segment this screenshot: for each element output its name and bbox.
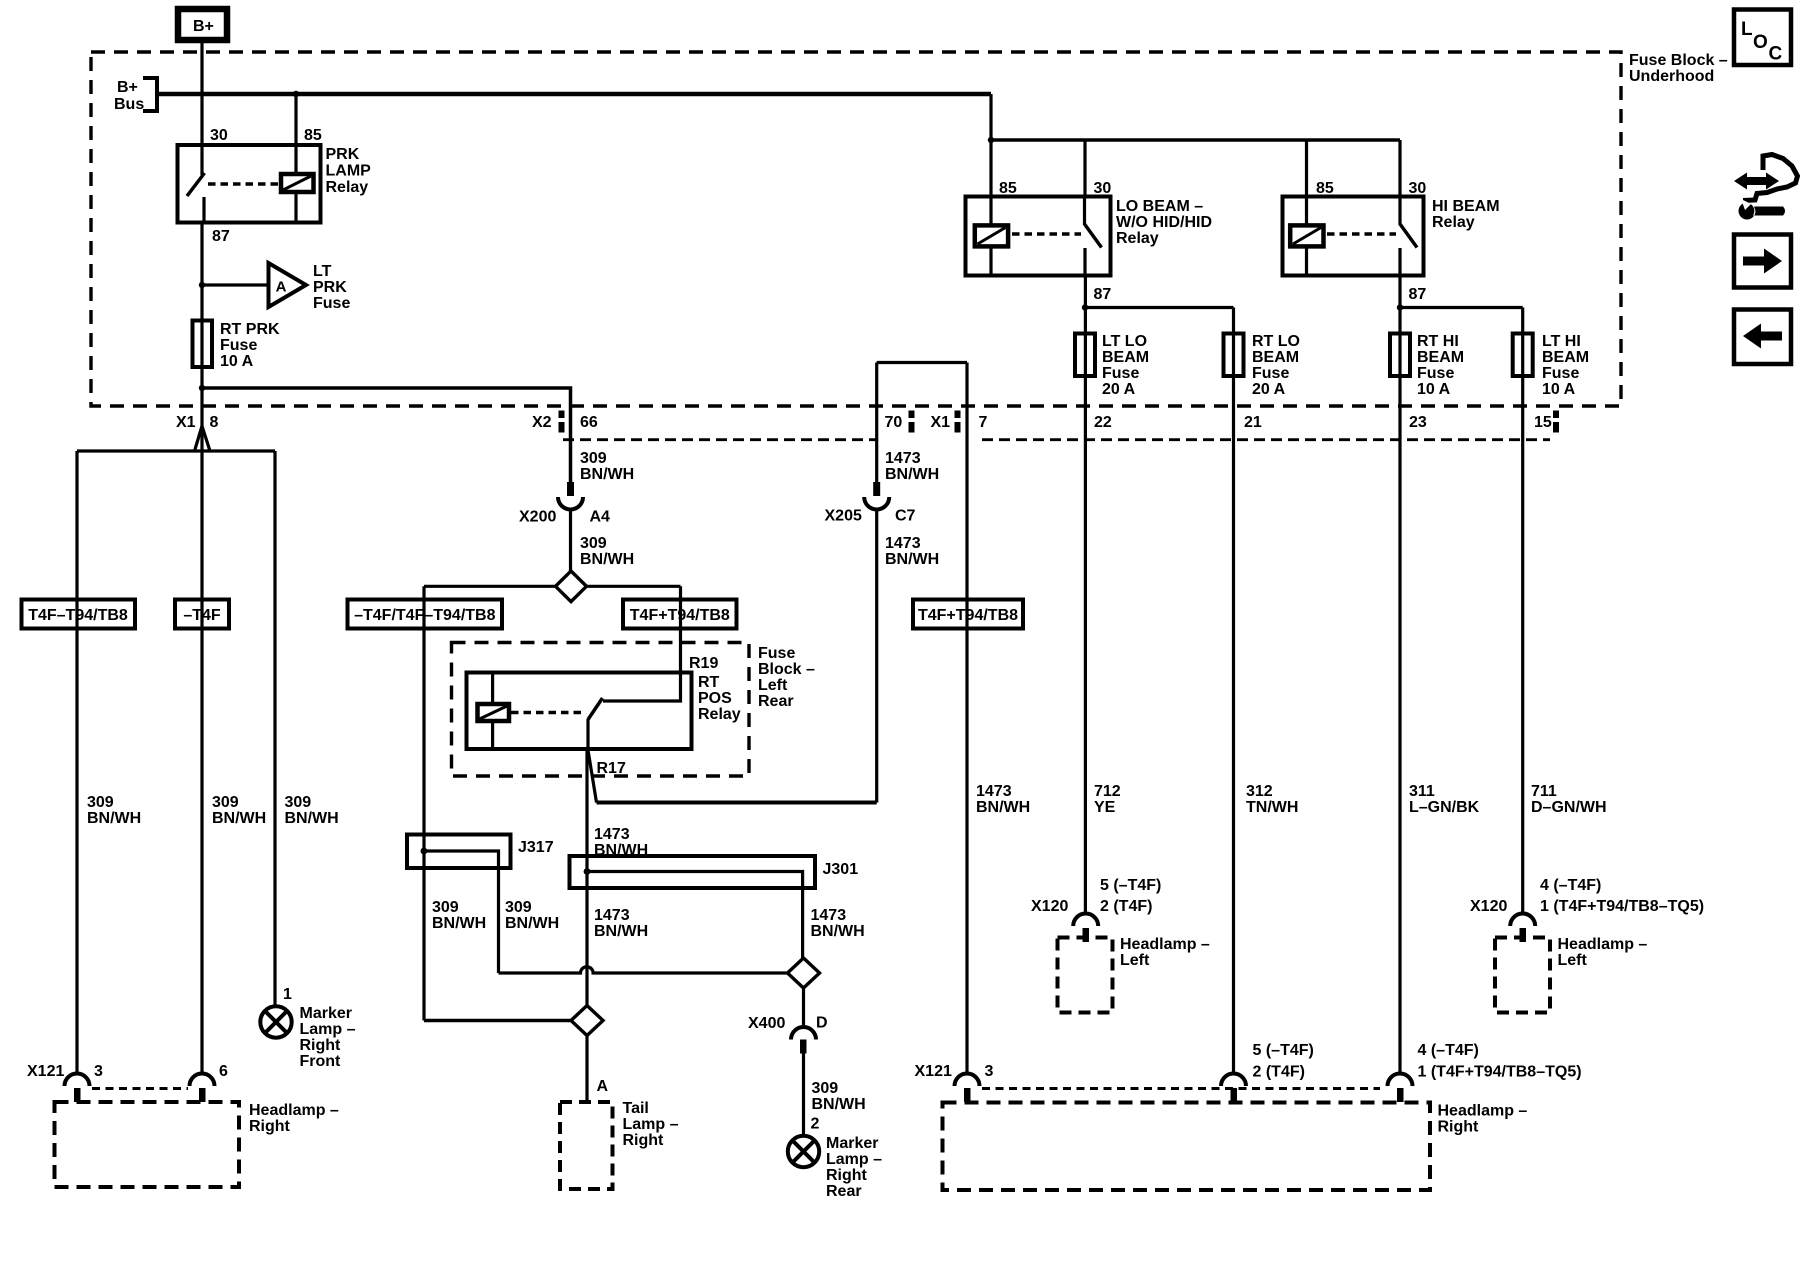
wire R17 slant to X205 feed [588, 750, 597, 803]
harness box –T4F/T4F–T94/TB8 [348, 600, 503, 629]
wire label 309 BN/WH (X400) [812, 1080, 866, 1113]
svg-text:BN/WH: BN/WH [594, 923, 648, 940]
relay LO BEAM pin87 stub [1083, 248, 1086, 276]
wire left branch down to X121-3 [75, 451, 78, 1073]
fuse RT HI BEAM label [1417, 333, 1464, 398]
splice pack J301 [570, 856, 816, 958]
connector X120 left (arc and pin) [1073, 914, 1098, 943]
wire label 1473 BN/WH (above X205) [885, 450, 939, 483]
relay R19 RT POS box [467, 673, 692, 750]
fuse RT HI BEAM 10A [1390, 334, 1410, 377]
pin labels 5/2 (X120 left) [1100, 877, 1161, 915]
svg-text:Tail: Tail [623, 1100, 649, 1117]
svg-text:R17: R17 [597, 760, 626, 777]
svg-text:Lamp –: Lamp – [826, 1151, 882, 1168]
wire label 309 BN/WH (below X200) [580, 535, 634, 568]
splice diamond (tail lamp) [571, 1006, 603, 1036]
svg-text:1473: 1473 [976, 783, 1012, 800]
fuse LT LO BEAM label [1102, 333, 1149, 398]
svg-text:85: 85 [999, 180, 1017, 197]
svg-text:85: 85 [304, 127, 322, 144]
svg-text:A: A [276, 279, 287, 296]
svg-text:309: 309 [580, 535, 607, 552]
wire HI 87 horizontal to LT HI fuse [1400, 306, 1523, 309]
wire to tail lamp A [585, 1036, 588, 1102]
wire fan from X1-8 right diagonal [202, 426, 210, 451]
svg-text:T4F+T94/TB8: T4F+T94/TB8 [918, 607, 1018, 624]
relay LO BEAM coil [975, 197, 1008, 276]
relay LO BEAM box [966, 197, 1111, 276]
svg-text:J317: J317 [518, 839, 554, 856]
pin labels 5/2 (headlamp right) [1253, 1042, 1314, 1081]
svg-text:309: 309 [580, 450, 607, 467]
wire drop HI relay 85 [1305, 140, 1308, 197]
wire X200 to splice [569, 509, 572, 572]
connector face dashed line (headlamp right, left side) [92, 1087, 188, 1090]
relay PRK LAMP switch blade [187, 173, 205, 196]
lamp marker right front [260, 1006, 291, 1037]
svg-text:Bus: Bus [114, 96, 144, 113]
wire label 309 BN/WH (left) [87, 794, 141, 827]
wire HI 87 down to fuses [1398, 276, 1401, 1074]
relay PRK LAMP pin30 stub [200, 145, 203, 175]
wire splice horizontal left [424, 585, 556, 588]
svg-text:BN/WH: BN/WH [580, 551, 634, 568]
wire pin 70 riser [875, 363, 878, 483]
marker lamp right rear label [826, 1135, 882, 1200]
svg-text:BN/WH: BN/WH [811, 923, 865, 940]
B+ bus bracket [143, 78, 157, 111]
wire label 309 BN/WH (above X200) [580, 450, 634, 483]
splice pack J317 [407, 835, 511, 974]
wire right branch down to marker lamp [273, 451, 276, 1006]
svg-text:C: C [1769, 44, 1783, 65]
relay HI BEAM pin30 stub [1398, 197, 1401, 226]
connector arc pin 2 (headlamp right) [1221, 1074, 1246, 1103]
svg-text:TN/WH: TN/WH [1246, 799, 1298, 816]
svg-text:Rear: Rear [758, 693, 794, 710]
svg-text:10 A: 10 A [1542, 381, 1576, 398]
wire label 1473 BN/WH (above J301) [594, 826, 648, 859]
svg-text:711: 711 [1531, 783, 1557, 800]
wire label 311 L-GN/BK [1409, 783, 1480, 816]
relay PRK LAMP box [178, 145, 321, 223]
svg-text:X400: X400 [748, 1015, 785, 1032]
svg-text:O: O [1753, 32, 1768, 53]
svg-text:87: 87 [1094, 286, 1112, 303]
relay PRK LAMP pin87 stub [202, 197, 205, 223]
wire J317 output horizontal with hop [499, 967, 788, 973]
node LT PRK tap [199, 282, 205, 288]
wire right branch down to R19 relay [679, 586, 682, 672]
wire R17 horizontal to pin 70 riser [597, 801, 877, 805]
svg-text:3: 3 [94, 1063, 103, 1080]
svg-text:X120: X120 [1470, 898, 1507, 915]
svg-text:Right: Right [300, 1037, 342, 1054]
previous page arrow box [1734, 310, 1791, 365]
svg-text:D: D [816, 1015, 828, 1032]
svg-text:RT: RT [698, 674, 720, 691]
fuse LT HI BEAM label [1542, 333, 1589, 398]
wire label 1473 BN/WH (below J301 center) [594, 907, 648, 940]
wire fuse block internal bridge 70 to 7 [877, 361, 967, 364]
svg-text:312: 312 [1246, 783, 1273, 800]
svg-text:309: 309 [432, 899, 459, 916]
pin labels 4/1 (headlamp right) [1418, 1042, 1582, 1081]
svg-text:Left: Left [758, 677, 788, 694]
svg-text:T4F–T94/TB8: T4F–T94/TB8 [28, 607, 128, 624]
relay LO BEAM pin30 stub [1083, 197, 1086, 226]
svg-text:1473: 1473 [885, 535, 921, 552]
fuse block underhood label [1629, 52, 1728, 85]
svg-text:X1: X1 [931, 414, 951, 431]
wire X400 to marker lamp right rear [802, 1054, 805, 1136]
wire drop to RT LO fuse [1232, 308, 1235, 1074]
svg-text:20 A: 20 A [1252, 381, 1286, 398]
svg-text:W/O HID/HID: W/O HID/HID [1116, 214, 1212, 231]
svg-text:Right: Right [1438, 1119, 1480, 1136]
node RT PRK output [199, 385, 205, 391]
fuse RT LO BEAM label [1252, 333, 1300, 398]
svg-text:PRK: PRK [313, 279, 347, 296]
svg-text:Lamp –: Lamp – [300, 1021, 356, 1038]
wire splice horizontal right [587, 585, 681, 588]
wire label 309 BN/WH (right) [285, 794, 339, 827]
wire left low horizontal to tail lamp splice [424, 1019, 572, 1023]
svg-text:Headlamp –: Headlamp – [1438, 1103, 1528, 1120]
wire LO 87 horizontal to RT LO fuse [1085, 306, 1234, 309]
svg-text:6: 6 [219, 1063, 228, 1080]
svg-text:X1: X1 [176, 414, 196, 431]
svg-text:BEAM: BEAM [1417, 349, 1464, 366]
wire label 312 TN/WH [1246, 783, 1298, 816]
svg-text:30: 30 [1094, 180, 1112, 197]
svg-text:Headlamp –: Headlamp – [1558, 936, 1648, 953]
connector mark X2 [559, 411, 565, 419]
svg-text:POS: POS [698, 690, 732, 707]
wire fan from X1-8 left diagonal [195, 426, 203, 451]
svg-text:5 (–T4F): 5 (–T4F) [1253, 1042, 1314, 1059]
headlamp left dashed box (right) [1495, 938, 1550, 1013]
wire pin 7 down [965, 363, 968, 1074]
svg-text:LT LO: LT LO [1102, 333, 1147, 350]
relay LO BEAM switch blade [1085, 224, 1102, 248]
svg-text:309: 309 [505, 899, 532, 916]
svg-text:A4: A4 [590, 509, 611, 526]
svg-text:Block –: Block – [758, 661, 815, 678]
connector X205 inline (pin and arc) [864, 482, 889, 509]
headlamp right dashed box (left) [55, 1102, 240, 1187]
relay PRK LAMP coil [281, 145, 314, 223]
tail lamp right dashed box [560, 1102, 613, 1189]
harness box T4F+T94/TB8 (center) [623, 600, 737, 629]
svg-text:Lamp –: Lamp – [623, 1116, 679, 1133]
relay R19 feed into switch [603, 673, 681, 702]
svg-text:RT HI: RT HI [1417, 333, 1459, 350]
svg-text:X205: X205 [825, 508, 862, 525]
wire PRK relay 87 down [200, 223, 203, 1074]
svg-text:Fuse Block –: Fuse Block – [1629, 52, 1728, 69]
svg-text:X2: X2 [532, 414, 552, 431]
lamp marker right rear [788, 1136, 819, 1167]
svg-text:BEAM: BEAM [1542, 349, 1589, 366]
svg-text:712: 712 [1094, 783, 1121, 800]
svg-text:Marker: Marker [300, 1005, 352, 1022]
connector arc pin 1 (headlamp right) [1388, 1074, 1413, 1103]
svg-text:Fuse: Fuse [1102, 365, 1139, 382]
relay R19 label [689, 655, 741, 723]
svg-text:30: 30 [1409, 180, 1427, 197]
wire label 712 YE [1094, 783, 1121, 816]
relay HI BEAM actuator dashed link [1327, 232, 1396, 236]
svg-text:20 A: 20 A [1102, 381, 1136, 398]
harness box T4F+T94/TB8 (right) [913, 600, 1023, 629]
svg-text:8: 8 [210, 414, 219, 431]
svg-text:Fuse: Fuse [1252, 365, 1289, 382]
svg-text:X200: X200 [519, 509, 556, 526]
svg-text:7: 7 [979, 414, 988, 431]
relay HI BEAM coil [1290, 197, 1323, 276]
wire label 711 D-GN/WH [1531, 783, 1607, 816]
wire drop to LT HI fuse [1521, 308, 1524, 914]
connector X400 (arc and pin) [791, 1027, 816, 1054]
connector X121 pin 3 right (arc and pin) [955, 1074, 980, 1103]
wire label 309 BN/WH (J317 output) [505, 899, 559, 932]
connector row dashed line (right span) [982, 438, 1550, 441]
svg-text:Headlamp –: Headlamp – [249, 1102, 339, 1119]
svg-text:LT HI: LT HI [1542, 333, 1581, 350]
svg-text:B+: B+ [193, 18, 214, 35]
svg-text:30: 30 [210, 127, 228, 144]
connector face dashed line (headlamp right, right side) [982, 1087, 1380, 1090]
wire label 1473 BN/WH (pin 7 wire) [976, 783, 1030, 816]
relay HI BEAM label [1432, 198, 1500, 231]
fuse block left rear dashed box [452, 643, 750, 777]
relay PRK LAMP actuator dashed link [208, 182, 278, 186]
svg-text:1: 1 [283, 986, 292, 1003]
splice diamond (309 split) [556, 571, 587, 602]
svg-text:2 (T4F): 2 (T4F) [1100, 898, 1152, 915]
svg-text:Relay: Relay [1432, 214, 1475, 231]
svg-text:RT LO: RT LO [1252, 333, 1300, 350]
svg-text:C7: C7 [895, 508, 916, 525]
wire label 309 BN/WH (J317 left leg) [432, 899, 486, 932]
svg-text:1473: 1473 [594, 907, 630, 924]
svg-text:D–GN/WH: D–GN/WH [1531, 799, 1607, 816]
fuse block underhood dashed border [91, 52, 1621, 406]
svg-text:10 A: 10 A [220, 353, 254, 370]
relay PRK LAMP label [326, 146, 372, 196]
svg-text:1 (T4F+T94/TB8–TQ5): 1 (T4F+T94/TB8–TQ5) [1540, 898, 1704, 915]
connector mark at 15 [1553, 411, 1559, 419]
connector X121 pin 6 (arc and pin) [190, 1074, 215, 1103]
connector mark at X1 [955, 411, 961, 419]
svg-text:Marker: Marker [826, 1135, 878, 1152]
svg-text:309: 309 [87, 794, 114, 811]
wire label 1473 BN/WH (J301 output) [811, 907, 865, 940]
svg-text:5 (–T4F): 5 (–T4F) [1100, 877, 1161, 894]
wire label 309 BN/WH (middle) [212, 794, 266, 827]
svg-text:2: 2 [811, 1116, 820, 1133]
svg-text:2 (T4F): 2 (T4F) [1253, 1064, 1305, 1081]
relay R19 common down [586, 719, 589, 749]
wire bus to PRK relay pin 85 [294, 94, 297, 145]
svg-text:PRK: PRK [326, 146, 360, 163]
svg-text:15: 15 [1534, 414, 1552, 431]
svg-text:3: 3 [985, 1063, 994, 1080]
svg-text:Headlamp –: Headlamp – [1120, 936, 1210, 953]
svg-text:Right: Right [249, 1118, 291, 1135]
svg-text:Underhood: Underhood [1629, 68, 1714, 85]
splice diamond (to X400) [788, 958, 820, 988]
svg-text:21: 21 [1244, 414, 1262, 431]
svg-text:Left: Left [1120, 952, 1150, 969]
svg-text:L–GN/BK: L–GN/BK [1409, 799, 1480, 816]
svg-text:309: 309 [212, 794, 239, 811]
svg-text:4 (–T4F): 4 (–T4F) [1540, 877, 1601, 894]
fuse block left rear label [758, 645, 815, 710]
node LO 87 split [1082, 304, 1088, 310]
node relay feed split [988, 137, 994, 143]
node bus tap PRK relay 85 [293, 91, 299, 97]
headlamp right label (right) [1438, 1103, 1528, 1136]
svg-text:1 (T4F+T94/TB8–TQ5): 1 (T4F+T94/TB8–TQ5) [1418, 1064, 1582, 1081]
fuse LT HI BEAM 10A [1513, 334, 1533, 377]
svg-text:A: A [597, 1078, 609, 1095]
wire label 1473 BN/WH (below X205) [885, 535, 939, 568]
headlamp left dashed box (left) [1058, 938, 1113, 1013]
svg-text:1473: 1473 [885, 450, 921, 467]
relay R19 coil [478, 673, 510, 750]
svg-text:Relay: Relay [1116, 230, 1159, 247]
svg-text:R19: R19 [689, 655, 718, 672]
wire X205 down to R17 junction [875, 509, 878, 803]
battery terminal B+ [178, 9, 227, 40]
svg-text:J301: J301 [823, 861, 859, 878]
svg-text:Relay: Relay [326, 179, 369, 196]
svg-text:LAMP: LAMP [326, 163, 372, 180]
svg-text:Fuse: Fuse [1417, 365, 1454, 382]
fuse symbol LT PRK (triangle) [269, 263, 307, 307]
svg-text:309: 309 [812, 1080, 839, 1097]
svg-text:311: 311 [1409, 783, 1435, 800]
wire relay feed horizontal [991, 138, 1400, 142]
svg-text:1473: 1473 [594, 826, 630, 843]
wire diamond to X400 [802, 988, 805, 1027]
next page arrow box [1734, 235, 1791, 288]
wire left branch down through J317 [422, 586, 425, 1020]
svg-text:Fuse: Fuse [220, 337, 257, 354]
svg-text:X121: X121 [915, 1063, 952, 1080]
svg-text:66: 66 [580, 414, 598, 431]
svg-text:RT PRK: RT PRK [220, 321, 280, 338]
connector X200 inline (pin and arc) [558, 482, 583, 509]
wire R17 down to J301 [585, 749, 588, 1006]
tail lamp right label [623, 1100, 679, 1149]
svg-text:BEAM: BEAM [1252, 349, 1299, 366]
svg-text:T4F+T94/TB8: T4F+T94/TB8 [630, 607, 730, 624]
LOC legend box [1734, 10, 1791, 66]
headlamp right dashed box (right) [943, 1103, 1431, 1191]
harness box T4F–T94/TB8 [22, 600, 136, 629]
svg-text:BN/WH: BN/WH [432, 915, 486, 932]
svg-text:70: 70 [885, 414, 903, 431]
svg-text:Left: Left [1558, 952, 1588, 969]
svg-text:Front: Front [300, 1053, 342, 1070]
svg-text:BN/WH: BN/WH [212, 810, 266, 827]
svg-text:85: 85 [1316, 180, 1334, 197]
connector X120 right (arc and pin) [1510, 914, 1535, 943]
svg-text:X120: X120 [1031, 898, 1068, 915]
svg-text:B+: B+ [117, 79, 138, 96]
svg-text:1473: 1473 [811, 907, 847, 924]
svg-text:Right: Right [826, 1167, 868, 1184]
fuse RT LO BEAM 20A [1224, 334, 1244, 377]
RT PRK fuse label [220, 321, 280, 370]
relay LO BEAM actuator dashed link [1012, 232, 1081, 236]
connector row dashed line (left span) [563, 438, 876, 441]
svg-text:10 A: 10 A [1417, 381, 1451, 398]
svg-text:–T4F/T4F–T94/TB8: –T4F/T4F–T94/TB8 [354, 607, 495, 624]
connector X121 pin 3 (arc and pin) [65, 1074, 90, 1103]
svg-text:Right: Right [623, 1132, 665, 1149]
wire LO 87 down to fuses [1084, 276, 1087, 914]
svg-text:Fuse: Fuse [758, 645, 795, 662]
svg-text:BN/WH: BN/WH [885, 466, 939, 483]
connector mark at 70 [909, 411, 915, 419]
svg-text:Rear: Rear [826, 1183, 862, 1200]
harness box –T4F [175, 600, 229, 629]
svg-text:–T4F: –T4F [183, 607, 221, 624]
svg-text:BN/WH: BN/WH [580, 466, 634, 483]
marker lamp right front label [300, 1005, 356, 1070]
wire B+ bus horizontal [157, 92, 991, 97]
svg-text:Fuse: Fuse [313, 295, 350, 312]
svg-text:X121: X121 [27, 1063, 64, 1080]
wire bus corner down to LO relay [989, 94, 992, 197]
svg-text:LO BEAM –: LO BEAM – [1116, 198, 1203, 215]
diagnostic tool icon (double arrow, outline, wrench) [1734, 155, 1798, 220]
svg-text:BN/WH: BN/WH [885, 551, 939, 568]
wire tap to LT PRK fuse [202, 283, 269, 286]
svg-text:22: 22 [1094, 414, 1112, 431]
pin labels 4/1 (X120 right) [1540, 877, 1704, 915]
svg-text:L: L [1741, 19, 1753, 40]
svg-text:23: 23 [1409, 414, 1427, 431]
svg-text:LT: LT [313, 263, 332, 280]
wire fan horizontal [77, 449, 275, 452]
svg-text:HI BEAM: HI BEAM [1432, 198, 1500, 215]
svg-text:BN/WH: BN/WH [505, 915, 559, 932]
relay HI BEAM switch blade [1400, 224, 1417, 248]
wire drop HI relay 30 [1398, 140, 1401, 197]
svg-text:BEAM: BEAM [1102, 349, 1149, 366]
svg-text:YE: YE [1094, 799, 1116, 816]
svg-text:Relay: Relay [698, 706, 741, 723]
node HI 87 split [1397, 304, 1403, 310]
svg-text:BN/WH: BN/WH [976, 799, 1030, 816]
fuse RT PRK 10A [193, 321, 213, 368]
fuse LT LO BEAM 20A [1075, 334, 1095, 377]
LT PRK fuse label [313, 263, 350, 312]
headlamp left label (right) [1558, 936, 1648, 969]
wire B+ feed to PRK relay pin 30 [200, 40, 203, 145]
svg-text:Fuse: Fuse [1542, 365, 1579, 382]
relay R19 switch blade [588, 698, 603, 720]
wire RT PRK output to X2-66 [202, 388, 571, 492]
svg-text:309: 309 [285, 794, 312, 811]
svg-text:4 (–T4F): 4 (–T4F) [1418, 1042, 1479, 1059]
